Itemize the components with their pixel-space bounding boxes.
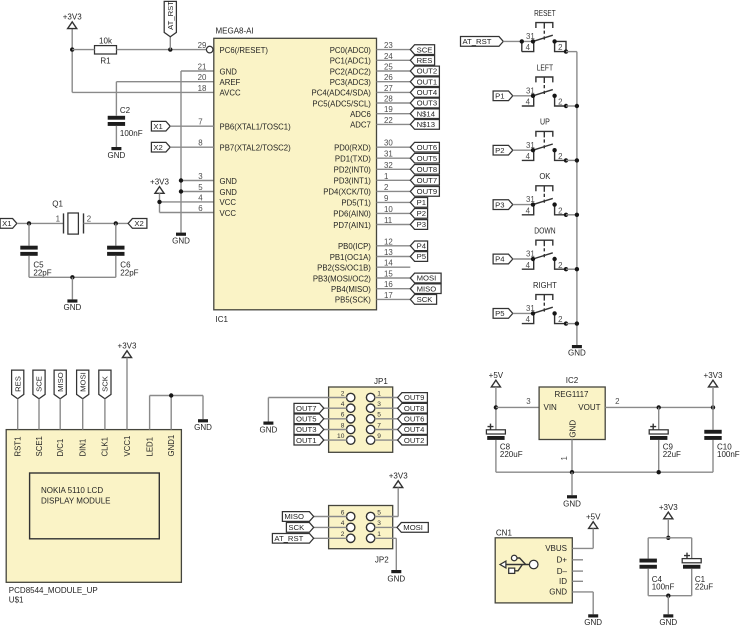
wire IC1 pin 23 to SCE bbox=[377, 49, 411, 51]
svg-text:SCE: SCE bbox=[35, 376, 44, 392]
svg-text:100nF: 100nF bbox=[717, 450, 740, 459]
svg-text:RESET: RESET bbox=[534, 9, 556, 18]
ground (IC1 GND pins) bbox=[172, 233, 190, 246]
wire switch UP output to bus bbox=[564, 158, 577, 162]
capacitor C6 22pF bbox=[107, 223, 139, 277]
svg-text:GND: GND bbox=[220, 67, 238, 76]
svg-text:10: 10 bbox=[384, 205, 393, 214]
ground (crystal) bbox=[64, 299, 82, 312]
capacitor C5 22pF bbox=[20, 223, 51, 277]
switch RIGHT bbox=[522, 281, 566, 324]
svg-text:2: 2 bbox=[558, 152, 562, 161]
svg-text:4: 4 bbox=[526, 206, 531, 215]
svg-text:MOSI: MOSI bbox=[78, 372, 87, 392]
svg-text:VBUS: VBUS bbox=[545, 544, 567, 553]
wire OUT9 to JP1 right bbox=[375, 397, 398, 399]
node SCK (flag at JP2) bbox=[286, 523, 313, 533]
node P2 (flag at switch) bbox=[493, 145, 513, 155]
wire switch LEFT output to bus bbox=[564, 104, 577, 108]
capacitor C10 100nF bbox=[704, 407, 739, 459]
wire X1 to crystal bbox=[17, 221, 64, 225]
wire OUT8 to JP1 right bbox=[375, 407, 398, 409]
power +3V3 (VCC pins) bbox=[150, 177, 169, 193]
wire SCK to LCD bbox=[104, 399, 106, 430]
wire +3V3 to C4,C1 bbox=[648, 519, 692, 559]
svg-text:OUT1: OUT1 bbox=[417, 77, 438, 86]
wire IC1 pin 29 lead bbox=[205, 49, 207, 51]
svg-text:1: 1 bbox=[377, 390, 381, 397]
svg-text:SCK: SCK bbox=[288, 523, 305, 532]
svg-text:GND: GND bbox=[569, 420, 578, 438]
svg-text:ID: ID bbox=[559, 577, 567, 586]
svg-text:Q1: Q1 bbox=[52, 200, 63, 209]
svg-text:P3: P3 bbox=[495, 200, 504, 209]
svg-text:CN1: CN1 bbox=[496, 528, 513, 537]
node OUT2 (flag right of JP1) bbox=[398, 435, 428, 445]
node P4 (flag at switch) bbox=[493, 254, 513, 264]
svg-text:2: 2 bbox=[558, 206, 562, 215]
switch UP bbox=[522, 118, 566, 161]
node OUT8 (flag right of JP1) bbox=[398, 403, 428, 413]
svg-text:IC1: IC1 bbox=[216, 315, 229, 324]
wire SCK to JP2 bbox=[314, 526, 347, 528]
node MOSI (flag at JP2) bbox=[397, 523, 428, 533]
node P1 (flag) bbox=[410, 198, 427, 208]
node P2 (flag) bbox=[410, 209, 427, 219]
svg-text:PB6(XTAL1/TOSC1): PB6(XTAL1/TOSC1) bbox=[220, 123, 292, 132]
node SCK (flag) bbox=[410, 295, 436, 305]
power +5V (VBUS) bbox=[586, 513, 601, 529]
capacitor C1 22uF bbox=[682, 553, 713, 592]
svg-text:MOSI: MOSI bbox=[403, 523, 423, 532]
svg-text:25: 25 bbox=[384, 62, 393, 71]
wire VOUT to +3V3/C9/C10 bbox=[605, 405, 715, 409]
svg-text:PC0(ADC0): PC0(ADC0) bbox=[330, 46, 372, 55]
wire C2 to ground bbox=[115, 126, 117, 147]
node OUT9 (flag right of JP1) bbox=[398, 393, 428, 403]
svg-text:4: 4 bbox=[341, 401, 345, 408]
wire MISO to LCD bbox=[59, 399, 61, 430]
node P5 (flag) bbox=[410, 252, 427, 262]
wire RES to LCD bbox=[17, 399, 19, 430]
svg-text:26: 26 bbox=[384, 73, 393, 82]
node RES (flag) bbox=[410, 55, 434, 65]
wire IC1 pin 24 to RES bbox=[377, 59, 411, 61]
svg-text:20: 20 bbox=[198, 73, 207, 82]
ground (CN1) bbox=[584, 614, 602, 627]
node SCE (flag) bbox=[410, 45, 434, 55]
svg-text:GND: GND bbox=[387, 574, 405, 583]
node OUT6 (flag right of JP1) bbox=[398, 414, 428, 424]
wire switch OK output to bus bbox=[564, 213, 577, 217]
wire MOSI to JP2 pin 3 bbox=[375, 526, 397, 528]
wire net +3V3 to R1 and AVCC bbox=[70, 29, 214, 93]
svg-text:1: 1 bbox=[377, 531, 381, 538]
power +3V3 (LCD VCC1) bbox=[118, 342, 137, 358]
svg-text:JP1: JP1 bbox=[374, 377, 388, 386]
svg-text:6: 6 bbox=[341, 412, 345, 419]
wire OUT1 to JP1 bbox=[324, 439, 347, 441]
svg-text:PC4(ADC4/SDA): PC4(ADC4/SDA) bbox=[312, 89, 372, 98]
switch LEFT bbox=[522, 63, 566, 106]
svg-text:+3V3: +3V3 bbox=[659, 503, 678, 512]
node AT_RST (flag at switch) bbox=[461, 37, 504, 47]
wire IC1 pin 30 to OUT6 bbox=[377, 146, 411, 148]
svg-text:PB3(MOSI/OC2): PB3(MOSI/OC2) bbox=[313, 274, 371, 283]
svg-text:29: 29 bbox=[198, 41, 207, 50]
wire net AT_RST : R1 to IC1 pin 29 bbox=[117, 37, 207, 52]
svg-text:21: 21 bbox=[198, 63, 207, 72]
wire +3V3 to VCC pins 4,6 bbox=[157, 193, 214, 212]
node MISO (flag at JP2) bbox=[282, 512, 313, 522]
svg-text:PC5(ADC5/SCL): PC5(ADC5/SCL) bbox=[312, 99, 371, 108]
svg-text:AVCC: AVCC bbox=[220, 89, 241, 98]
ground (JP2) bbox=[387, 570, 405, 583]
wire IC1 pin 17 to SCK bbox=[377, 298, 411, 300]
node OUT3 (flag at JP1) bbox=[294, 425, 324, 435]
svg-text:4: 4 bbox=[341, 520, 345, 527]
connector CN1 USB bbox=[495, 528, 572, 603]
svg-text:JP2: JP2 bbox=[375, 556, 389, 565]
capacitor C2 100nF bbox=[108, 106, 143, 138]
wire IC1 pin 13 to P5 bbox=[377, 256, 411, 258]
svg-text:OUT3: OUT3 bbox=[417, 99, 438, 108]
svg-text:PD5(T1): PD5(T1) bbox=[341, 199, 371, 208]
svg-text:13: 13 bbox=[384, 248, 393, 257]
svg-text:GND: GND bbox=[568, 349, 586, 358]
wire MISO to JP2 bbox=[314, 516, 347, 518]
svg-text:PB2(SS/OC1B): PB2(SS/OC1B) bbox=[317, 264, 371, 273]
node OUT9 (flag) bbox=[410, 187, 439, 197]
svg-text:PC2(ADC2): PC2(ADC2) bbox=[330, 67, 372, 76]
power +5V (regulator input) bbox=[489, 371, 504, 387]
svg-text:MISO: MISO bbox=[417, 284, 437, 293]
svg-text:9: 9 bbox=[377, 433, 381, 440]
wire JP2 pin 1 to ground bbox=[375, 538, 397, 570]
svg-text:PC6(/RESET): PC6(/RESET) bbox=[220, 46, 269, 55]
capacitor C4 100nF bbox=[640, 559, 675, 592]
wire D+ stub bbox=[572, 559, 583, 561]
wire IC1 pin 32 to OUT8 bbox=[377, 168, 411, 170]
ground (C2) bbox=[108, 147, 126, 160]
wire P5 to switch bbox=[513, 312, 533, 314]
wire IC1 pin 9 to P1 bbox=[377, 201, 411, 203]
power +3V3 (top left) bbox=[63, 13, 82, 29]
svg-text:PB0(ICP): PB0(ICP) bbox=[338, 242, 371, 251]
svg-text:D–: D– bbox=[557, 567, 568, 576]
svg-text:PD1(TXD): PD1(TXD) bbox=[335, 155, 371, 164]
svg-text:R1: R1 bbox=[100, 57, 111, 66]
svg-text:23: 23 bbox=[384, 41, 393, 50]
wire X1 to PB6 bbox=[170, 125, 214, 127]
wire P4 to switch bbox=[513, 258, 533, 260]
svg-text:GND: GND bbox=[64, 303, 82, 312]
svg-text:N$13: N$13 bbox=[417, 120, 435, 129]
svg-text:10: 10 bbox=[337, 433, 345, 440]
svg-text:22pF: 22pF bbox=[33, 268, 51, 277]
node X2 (flag) bbox=[128, 219, 147, 229]
wire LED1,GND1 to ground bbox=[150, 393, 203, 429]
svg-text:P4: P4 bbox=[495, 255, 505, 264]
svg-text:GND1: GND1 bbox=[167, 435, 176, 457]
svg-text:VCC1: VCC1 bbox=[123, 436, 132, 457]
connector JP1 bbox=[329, 377, 393, 452]
svg-text:10k: 10k bbox=[99, 37, 113, 46]
svg-text:4: 4 bbox=[526, 315, 531, 324]
wire +3V3 to VCC1 bbox=[126, 358, 128, 430]
svg-text:4: 4 bbox=[526, 152, 531, 161]
wire IC1 pin 1 to OUT7 bbox=[377, 179, 411, 181]
svg-text:5: 5 bbox=[377, 509, 381, 516]
svg-text:7: 7 bbox=[198, 118, 202, 127]
svg-text:PB5(SCK): PB5(SCK) bbox=[335, 296, 371, 305]
node OUT4 (flag) bbox=[410, 88, 439, 98]
svg-text:PD0(RXD): PD0(RXD) bbox=[334, 144, 371, 153]
wire IC1 pin 16 to MISO bbox=[377, 288, 411, 290]
node OUT6 (flag) bbox=[410, 142, 439, 152]
node OUT5 (flag at JP1) bbox=[294, 414, 324, 424]
svg-text:22uF: 22uF bbox=[695, 582, 713, 591]
switch RESET bbox=[520, 9, 566, 52]
capacitor C8 220uF bbox=[486, 424, 522, 459]
svg-text:IC2: IC2 bbox=[566, 376, 579, 385]
wire C4,C1 to ground bbox=[648, 569, 692, 615]
svg-text:100nF: 100nF bbox=[652, 582, 675, 591]
svg-text:2: 2 bbox=[384, 183, 388, 192]
svg-text:30: 30 bbox=[384, 139, 393, 148]
svg-text:+3V3: +3V3 bbox=[704, 371, 723, 380]
svg-text:3: 3 bbox=[526, 397, 531, 406]
wire crystal to X2 bbox=[84, 221, 129, 225]
svg-text:P1: P1 bbox=[495, 92, 504, 101]
svg-text:PB4(MISO): PB4(MISO) bbox=[331, 285, 371, 294]
svg-text:GND: GND bbox=[220, 177, 238, 186]
power +3V3 (regulator output) bbox=[704, 371, 723, 407]
node SCK (flag at LCD) bbox=[99, 370, 111, 399]
svg-text:OUT4: OUT4 bbox=[417, 88, 438, 97]
svg-text:4: 4 bbox=[526, 43, 531, 52]
svg-text:MISO: MISO bbox=[284, 512, 304, 521]
svg-text:OUT2: OUT2 bbox=[404, 436, 425, 445]
ground (regulator) bbox=[563, 495, 581, 508]
svg-text:+3V3: +3V3 bbox=[118, 342, 137, 351]
svg-text:P1: P1 bbox=[417, 198, 426, 207]
svg-text:5: 5 bbox=[198, 183, 203, 192]
svg-text:PCD8544_MODULE_UP: PCD8544_MODULE_UP bbox=[9, 586, 98, 595]
wire X2 to PB7 bbox=[170, 146, 214, 148]
svg-text:SCK: SCK bbox=[417, 295, 434, 304]
node OUT7 (flag) bbox=[410, 175, 439, 185]
svg-text:OUT7: OUT7 bbox=[417, 176, 438, 185]
svg-text:32: 32 bbox=[384, 161, 393, 170]
wire +3V3 to R1 bbox=[72, 49, 94, 51]
node RES (flag at LCD) bbox=[12, 370, 24, 399]
resistor R1 10k bbox=[95, 37, 117, 66]
svg-text:14: 14 bbox=[384, 259, 393, 268]
wire JP1 pin 2 to ground bbox=[268, 398, 346, 422]
svg-text:4: 4 bbox=[198, 193, 203, 202]
svg-text:LEFT: LEFT bbox=[537, 63, 553, 72]
svg-text:2: 2 bbox=[558, 43, 562, 52]
svg-text:3: 3 bbox=[198, 172, 203, 181]
svg-text:GND: GND bbox=[584, 618, 602, 627]
wire switch DOWN output to bus bbox=[564, 267, 577, 271]
svg-text:PD6(AIN0): PD6(AIN0) bbox=[333, 210, 371, 219]
svg-text:11: 11 bbox=[384, 216, 392, 225]
svg-text:4: 4 bbox=[526, 98, 531, 107]
wire switch ground bus bbox=[575, 52, 579, 345]
svg-text:OUT7: OUT7 bbox=[296, 404, 317, 413]
svg-text:PB1(OC1A): PB1(OC1A) bbox=[330, 253, 372, 262]
svg-text:OUT8: OUT8 bbox=[404, 404, 425, 413]
node SCE (flag at LCD) bbox=[33, 370, 45, 399]
svg-text:+3V3: +3V3 bbox=[389, 472, 408, 481]
crystal Q1 bbox=[52, 200, 91, 234]
svg-text:GND: GND bbox=[659, 618, 677, 627]
ground (C4/C1) bbox=[659, 614, 677, 627]
node X2 (flag at IC1) bbox=[151, 142, 170, 152]
wire P2 to switch bbox=[513, 149, 533, 151]
svg-text:SCE1: SCE1 bbox=[35, 436, 44, 456]
svg-text:OUT6: OUT6 bbox=[417, 143, 438, 152]
svg-text:22pF: 22pF bbox=[120, 268, 138, 277]
svg-text:VOUT: VOUT bbox=[578, 403, 600, 412]
svg-text:RES: RES bbox=[417, 56, 433, 65]
svg-text:+5V: +5V bbox=[586, 513, 601, 522]
svg-text:UP: UP bbox=[540, 118, 550, 127]
power +3V3 (JP2 pin 5) bbox=[389, 472, 408, 488]
svg-text:OUT4: OUT4 bbox=[404, 425, 425, 434]
wire switch RESET output to bus bbox=[564, 49, 577, 53]
svg-text:OUT9: OUT9 bbox=[404, 393, 425, 402]
node AT_RST (flag, top) bbox=[164, 1, 176, 37]
svg-text:100nF: 100nF bbox=[120, 129, 143, 138]
node N$13 (flag) bbox=[410, 120, 439, 130]
svg-text:AT_RST: AT_RST bbox=[463, 37, 492, 46]
node OUT1 (flag) bbox=[410, 77, 439, 87]
wire GND net: IC1 pin 21, pins 3,5 bbox=[179, 71, 214, 233]
svg-text:NOKIA 5110 LCD: NOKIA 5110 LCD bbox=[41, 486, 103, 495]
IC IC1 MEGA8-AI microcontroller bbox=[198, 27, 394, 324]
svg-text:P2: P2 bbox=[495, 146, 504, 155]
wire IC1 pin 27 to OUT4 bbox=[377, 91, 411, 93]
svg-text:12: 12 bbox=[384, 237, 393, 246]
svg-text:220uF: 220uF bbox=[500, 450, 523, 459]
ground (JP1) bbox=[260, 422, 278, 435]
svg-text:+3V3: +3V3 bbox=[63, 13, 82, 22]
svg-text:4: 4 bbox=[526, 261, 531, 270]
svg-text:GND: GND bbox=[549, 588, 567, 597]
svg-text:GND: GND bbox=[194, 423, 212, 432]
svg-text:7: 7 bbox=[377, 422, 381, 429]
svg-text:X1: X1 bbox=[2, 219, 11, 228]
svg-text:VCC: VCC bbox=[220, 198, 237, 207]
node OUT3 (flag) bbox=[410, 98, 439, 108]
svg-text:6: 6 bbox=[341, 509, 345, 516]
wire +5V to VIN and C8 bbox=[494, 387, 539, 430]
node OUT5 (flag) bbox=[410, 153, 439, 163]
wire IC1 pin 10 to P2 bbox=[377, 212, 411, 214]
wire OUT2 to JP1 right bbox=[375, 439, 398, 441]
svg-text:2: 2 bbox=[341, 390, 345, 397]
svg-text:SCK: SCK bbox=[101, 375, 110, 392]
svg-text:2: 2 bbox=[87, 214, 91, 223]
svg-text:1: 1 bbox=[384, 172, 388, 181]
wire C5,C6 to ground bbox=[29, 256, 116, 300]
svg-text:RIGHT: RIGHT bbox=[533, 281, 557, 290]
wire P3 to switch bbox=[513, 204, 533, 206]
svg-text:16: 16 bbox=[384, 280, 393, 289]
power +3V3 (C4/C1) bbox=[659, 503, 678, 519]
wire IC1 pin 31 to OUT5 bbox=[377, 157, 411, 159]
svg-text:ADC6: ADC6 bbox=[350, 110, 371, 119]
svg-text:8: 8 bbox=[341, 422, 345, 429]
wire OUT3 to JP1 bbox=[324, 429, 347, 431]
wire OUT5 to JP1 bbox=[324, 418, 347, 420]
svg-text:AT_RST: AT_RST bbox=[274, 534, 303, 543]
svg-text:REG1117: REG1117 bbox=[555, 390, 589, 399]
svg-text:17: 17 bbox=[384, 291, 393, 300]
svg-text:GND: GND bbox=[172, 236, 190, 245]
wire ground rail (regulator) bbox=[496, 440, 713, 496]
wire AREF to C2 bbox=[116, 82, 213, 116]
svg-text:GND: GND bbox=[260, 425, 278, 434]
svg-text:3: 3 bbox=[377, 401, 381, 408]
svg-text:RST1: RST1 bbox=[14, 437, 23, 457]
wire IC1 pin 2 to OUT9 bbox=[377, 190, 411, 192]
switch OK bbox=[522, 172, 566, 215]
svg-text:P5: P5 bbox=[417, 252, 426, 261]
svg-text:AT_RST: AT_RST bbox=[166, 1, 175, 30]
svg-text:1: 1 bbox=[56, 214, 60, 223]
svg-text:24: 24 bbox=[384, 52, 393, 61]
capacitor C9 22uF bbox=[649, 407, 681, 459]
svg-text:GND: GND bbox=[563, 500, 581, 509]
svg-text:22: 22 bbox=[384, 116, 393, 125]
svg-text:P2: P2 bbox=[417, 209, 426, 218]
node X1 (flag at IC1) bbox=[151, 121, 170, 131]
svg-text:2: 2 bbox=[558, 98, 562, 107]
node MOSI (flag at LCD) bbox=[77, 370, 89, 399]
svg-text:X2: X2 bbox=[134, 219, 143, 228]
svg-text:C2: C2 bbox=[120, 106, 131, 115]
wire +3V3 to JP2 pin 5 bbox=[375, 488, 399, 517]
svg-text:2: 2 bbox=[558, 261, 562, 270]
IC IC2 REG1117 bbox=[526, 376, 619, 461]
svg-text:DIN1: DIN1 bbox=[79, 439, 88, 457]
ground (switch bus) bbox=[568, 345, 586, 358]
wire AT_RST to switch bbox=[503, 40, 533, 42]
svg-text:DOWN: DOWN bbox=[534, 227, 555, 236]
wire IC1 pin 15 to MOSI bbox=[377, 277, 411, 279]
wire IC1 pin 25 to OUT2 bbox=[377, 70, 411, 72]
svg-text:GND: GND bbox=[108, 151, 126, 160]
connector JP2 bbox=[329, 506, 393, 565]
wire SCE to LCD bbox=[38, 399, 40, 430]
svg-text:1: 1 bbox=[560, 456, 569, 460]
wire IC1 pin 14 stub (n.c.) bbox=[377, 266, 411, 268]
wire CN1 GND to ground bbox=[572, 592, 593, 614]
node P1 (flag at switch) bbox=[493, 91, 513, 101]
svg-text:SCE: SCE bbox=[417, 45, 433, 54]
svg-text:PD2(INT0): PD2(INT0) bbox=[334, 166, 372, 175]
svg-text:OUT3: OUT3 bbox=[296, 425, 317, 434]
svg-text:GND: GND bbox=[220, 188, 238, 197]
wire IC1 pin 12 to P4 bbox=[377, 245, 411, 247]
svg-text:3: 3 bbox=[377, 520, 381, 527]
node OUT2 (flag) bbox=[410, 66, 439, 76]
svg-text:OUT9: OUT9 bbox=[417, 187, 438, 196]
